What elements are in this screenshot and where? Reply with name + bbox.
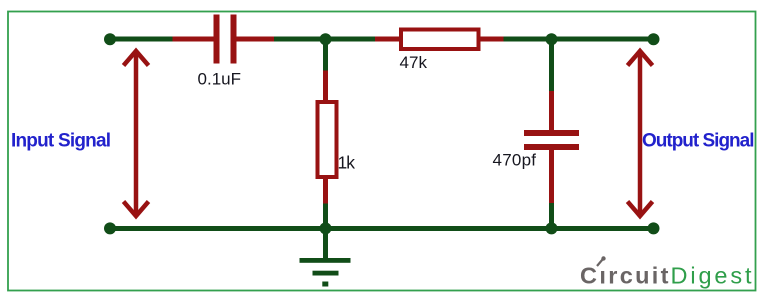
resistor R2 1k [318, 102, 337, 177]
svg-text:Cırcuit: Cırcuit [580, 263, 669, 289]
capacitor C2 470pf [524, 130, 579, 150]
svg-text:47k: 47k [400, 53, 428, 72]
svg-text:0.1uF: 0.1uF [198, 70, 242, 89]
wire: top net, left green segment [109, 37, 173, 42]
label 0.1uF [198, 70, 242, 89]
node G (bottom, 470pf) [546, 222, 558, 234]
svg-text:Digest: Digest [671, 263, 752, 289]
node A (top-left) [104, 33, 116, 45]
wire: red lead from R1 [481, 37, 504, 42]
node C (top, 470pf tap) [546, 33, 558, 45]
output double arrow [628, 51, 653, 216]
node B (top-middle, 1k tap) [320, 33, 332, 45]
wire: 470pf branch green upper [549, 39, 554, 91]
input double arrow [124, 51, 149, 216]
label 470pf [493, 151, 537, 170]
svg-text:Input Signal: Input Signal [11, 131, 111, 152]
wire: red lead into R1 [375, 37, 401, 42]
node H (bottom-right) [648, 222, 660, 234]
wire: green segment C1 to R1 lead (through node B) [274, 37, 375, 42]
wire: 470pf branch red lead upper [549, 91, 554, 130]
node F (bottom, ground junction) [320, 222, 332, 234]
svg-text:470pf: 470pf [493, 151, 537, 170]
wire: 470pf branch red lead lower [549, 150, 554, 203]
resistor R1 47k [401, 30, 479, 50]
svg-text:Output Signal: Output Signal [642, 131, 755, 152]
label 47k [400, 53, 428, 72]
node E (bottom-left) [104, 222, 116, 234]
capacitor C1 0.1uF [214, 15, 237, 64]
ground [300, 229, 351, 287]
wire: 1k branch green lower [323, 204, 328, 230]
wire: 1k branch red lead upper [323, 71, 328, 101]
wire: 1k branch green upper [323, 39, 328, 71]
wire: red lead into C1 left plate [173, 37, 214, 42]
wire: 1k branch red lead lower [323, 179, 328, 204]
svg-text:1k: 1k [338, 153, 356, 173]
node D (top-right output) [648, 33, 660, 45]
logo CircuitDigest [580, 256, 752, 288]
label Input Signal [11, 131, 111, 152]
wire: green segment R1 to right end (through node C) [504, 37, 655, 42]
label Output Signal [642, 131, 755, 152]
wire: red lead from C1 right plate [237, 37, 275, 42]
wire: 470pf branch green lower [549, 203, 554, 229]
label 1k [338, 153, 356, 173]
wire: bottom net green [110, 226, 655, 231]
